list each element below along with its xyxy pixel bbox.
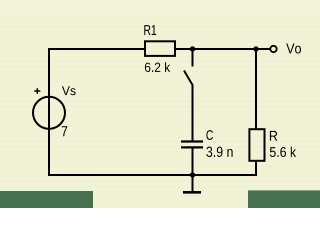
wire switch upper lead xyxy=(192,48,194,67)
label Vs xyxy=(62,86,76,95)
label R xyxy=(270,131,277,141)
label 5.6 k xyxy=(270,147,296,157)
label 7 xyxy=(62,126,67,136)
label 3.9 n xyxy=(206,147,232,157)
ground stub xyxy=(192,175,194,191)
plus sign of Vs xyxy=(34,88,40,94)
wire switch to capacitor xyxy=(192,85,194,141)
green bar bottom-left xyxy=(0,191,93,208)
node junction dot at R1/switch xyxy=(190,46,195,51)
node junction dot at Vo/R xyxy=(253,46,258,51)
wire left vertical (through Vs) xyxy=(48,48,50,175)
capacitor C plates xyxy=(181,142,203,148)
wire top-left horizontal (node in to R1) xyxy=(49,48,145,50)
label 6.2 k xyxy=(145,62,170,72)
resistor R1 body xyxy=(145,41,175,56)
wire bottom horizontal (ground rail) xyxy=(48,174,256,176)
wire top-right horizontal (R1 to Vo) xyxy=(175,48,270,50)
voltage source Vs circle xyxy=(33,97,65,129)
node junction dot at ground rail xyxy=(190,172,195,177)
wire Vo junction down to R xyxy=(255,48,257,129)
ground bar xyxy=(183,191,201,194)
background dot grid xyxy=(0,20,320,209)
label R1 xyxy=(144,25,156,35)
wire capacitor to ground rail xyxy=(192,149,194,177)
green bar bottom-right xyxy=(248,190,320,208)
wire R to ground rail xyxy=(255,162,257,177)
resistor R body xyxy=(249,129,264,161)
label Vo xyxy=(286,44,301,54)
terminal Vo open circle xyxy=(270,46,276,52)
switch S1 blade (open) xyxy=(184,71,193,86)
label C xyxy=(206,130,213,140)
